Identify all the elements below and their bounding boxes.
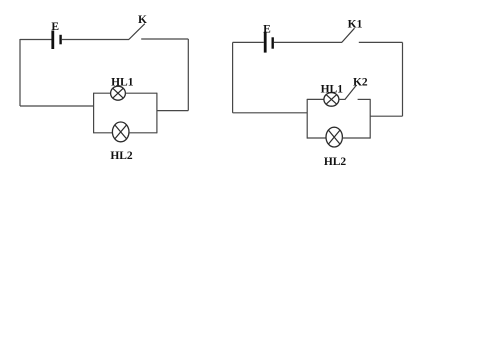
svg-text:K1: K1 <box>348 19 363 31</box>
lamp HL1 <box>111 86 126 100</box>
label K1 <box>348 19 363 31</box>
battery E <box>265 32 273 53</box>
label K <box>138 14 147 26</box>
wire <box>125 92 156 94</box>
label HL1 <box>321 84 344 96</box>
label HL2 <box>324 156 347 168</box>
svg-text:E: E <box>263 24 271 36</box>
node junction <box>93 93 95 134</box>
switch K2 <box>345 85 357 100</box>
wire <box>232 42 234 112</box>
svg-text:HL2: HL2 <box>324 156 347 168</box>
battery E <box>53 31 61 50</box>
lamp HL2 <box>326 127 342 147</box>
wire <box>370 115 402 117</box>
label HL2 <box>110 150 133 162</box>
wire <box>339 98 345 100</box>
svg-text:E: E <box>51 21 59 33</box>
wire <box>402 42 404 116</box>
wire <box>359 41 403 43</box>
wire <box>233 41 264 43</box>
wire <box>369 99 371 139</box>
svg-text:HL1: HL1 <box>321 84 344 96</box>
wire <box>187 39 189 111</box>
wire <box>156 93 158 134</box>
switch K <box>129 24 145 40</box>
svg-text:K: K <box>138 14 147 26</box>
wire <box>94 132 113 134</box>
wire <box>20 39 52 41</box>
wire <box>307 137 326 139</box>
svg-text:HL2: HL2 <box>110 150 133 162</box>
svg-text:HL1: HL1 <box>111 77 134 89</box>
label K2 <box>353 76 368 88</box>
wire <box>20 105 94 107</box>
wire <box>358 98 371 100</box>
wire <box>157 110 188 112</box>
wire <box>19 39 21 106</box>
wire <box>274 41 342 43</box>
svg-text:K2: K2 <box>353 76 368 88</box>
wire <box>129 132 157 134</box>
wire <box>342 137 370 139</box>
wire <box>94 92 111 94</box>
label E <box>51 21 59 33</box>
wire <box>62 39 129 41</box>
lamp HL2 <box>112 122 129 142</box>
lamp HL1 <box>324 93 339 107</box>
label E <box>263 24 271 36</box>
wire <box>307 98 324 100</box>
label HL1 <box>111 77 134 89</box>
node junction <box>306 99 308 139</box>
wire <box>233 112 308 114</box>
wire <box>141 38 188 40</box>
switch K1 <box>342 28 355 42</box>
